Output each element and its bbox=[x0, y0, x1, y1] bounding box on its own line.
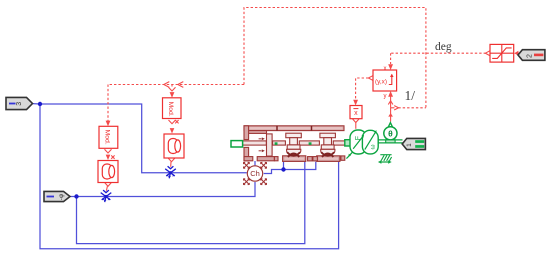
svg-text:Mod.: Mod. bbox=[167, 102, 174, 117]
svg-text:1: 1 bbox=[406, 143, 413, 147]
svg-text:θ: θ bbox=[388, 129, 393, 139]
svg-text:(y,x): (y,x) bbox=[375, 78, 387, 85]
svg-text:x: x bbox=[384, 66, 387, 72]
svg-text:-φ: -φ bbox=[58, 194, 65, 200]
svg-text:y: y bbox=[384, 93, 387, 99]
svg-text:1/: 1/ bbox=[405, 88, 416, 103]
svg-text:x: x bbox=[354, 110, 358, 117]
svg-text:3: 3 bbox=[16, 102, 23, 106]
svg-text:2: 2 bbox=[527, 54, 534, 58]
svg-text:ω: ω bbox=[370, 144, 377, 149]
svg-text:Ch: Ch bbox=[250, 169, 260, 178]
svg-text:deg: deg bbox=[435, 41, 452, 53]
svg-text:Mod.: Mod. bbox=[104, 130, 111, 145]
